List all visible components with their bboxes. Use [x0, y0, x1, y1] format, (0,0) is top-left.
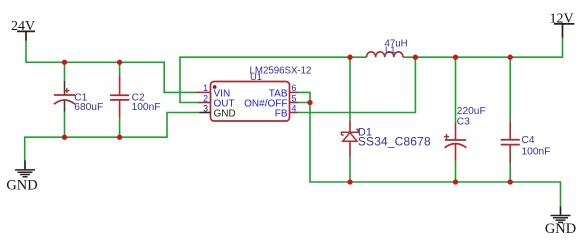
- junction C2 top: [117, 60, 122, 65]
- junction C1 bottom: [62, 135, 67, 140]
- svg-text:100nF: 100nF: [132, 102, 161, 113]
- C3 polarity plus: [444, 134, 449, 139]
- C3 curved plate: [445, 144, 467, 148]
- pin 5 stub: [290, 102, 299, 104]
- pin 3 stub: [200, 112, 211, 114]
- C1 polarity plus: [64, 88, 69, 93]
- capacitor C4: [501, 122, 551, 164]
- wire C3 bottom lead: [455, 161, 457, 183]
- pin 6 stub: [290, 91, 299, 93]
- svg-text:GND: GND: [6, 177, 37, 193]
- wire D1 cathode drop: [349, 57, 351, 120]
- wire C1 top lead: [64, 62, 66, 81]
- wire FB net: pin 4 to riser at inductor output: [298, 57, 415, 112]
- svg-text:GND: GND: [545, 221, 576, 237]
- svg-text:SS34_C8678: SS34_C8678: [358, 135, 431, 149]
- power port 12V: [549, 11, 574, 37]
- D1 anode triangle: [343, 133, 357, 142]
- C3 leads: [455, 123, 457, 161]
- svg-text:1: 1: [203, 83, 208, 93]
- junction C4 bottom: [508, 179, 513, 184]
- svg-text:3: 3: [203, 103, 208, 113]
- svg-text:4: 4: [292, 103, 297, 113]
- C1 curved plate: [54, 100, 75, 104]
- C1 straight plate: [54, 94, 75, 96]
- pin 1 stub: [197, 91, 211, 93]
- C3 straight plate: [445, 139, 466, 141]
- left ground stub: [24, 161, 26, 170]
- left ground bars: [15, 170, 35, 177]
- svg-text:L1: L1: [385, 44, 395, 55]
- capacitor C3 (polarized): [444, 106, 486, 161]
- diode D1 (Schottky): [341, 121, 431, 158]
- junction C1 top: [62, 60, 67, 65]
- C2 leads: [119, 76, 121, 118]
- right ground bars: [551, 216, 571, 223]
- wire C4 top lead: [509, 57, 511, 121]
- wire C2 bottom lead: [119, 118, 121, 138]
- svg-text:U1: U1: [250, 71, 262, 82]
- power port 24V: [11, 19, 35, 41]
- junction D1 bottom: [347, 179, 352, 184]
- C4 leads: [509, 122, 511, 164]
- wire C1 bottom lead: [64, 111, 66, 137]
- svg-text:FB: FB: [275, 109, 288, 120]
- junction C4 top: [508, 55, 513, 60]
- svg-text:GND: GND: [214, 109, 236, 120]
- ground symbol right: [545, 207, 576, 238]
- svg-text:C3: C3: [457, 116, 470, 127]
- 24V port bar symbol: [17, 31, 35, 40]
- junction C3 bottom: [453, 179, 458, 184]
- wire ON/OFF + TAB net down to ground bus: [298, 92, 351, 182]
- pin 2 stub: [199, 102, 211, 104]
- wire bottom-left ground bus and riser to pin 3: [24, 113, 201, 162]
- junction ON/OFF-TAB: [307, 100, 312, 105]
- junction L1 out: [413, 55, 418, 60]
- ground symbol left: [6, 161, 37, 194]
- D1 schottky cathode bar: [341, 129, 358, 135]
- svg-text:2: 2: [203, 93, 208, 103]
- wire C4 bottom lead: [509, 163, 511, 182]
- capacitor C1 (polarized): [54, 81, 103, 113]
- C2 plates: [110, 95, 129, 100]
- svg-text:C4: C4: [522, 135, 535, 146]
- wire 24V net: drop from port, top-left bus, riser to pin 1: [25, 41, 197, 93]
- C1 leads: [64, 81, 66, 112]
- wire bottom-right ground bus: [350, 182, 561, 207]
- svg-text:680uF: 680uF: [74, 102, 103, 113]
- svg-text:6: 6: [292, 83, 297, 93]
- pin 4 stub: [290, 112, 299, 114]
- L1 coil: [367, 52, 403, 57]
- IC U1 LM2596SX-12 body: [211, 82, 290, 122]
- junction D1 top: [347, 55, 352, 60]
- junction C2 bottom: [117, 135, 122, 140]
- D1 leads: [349, 121, 351, 158]
- C4 plates: [501, 140, 520, 145]
- 12V port bar symbol: [554, 24, 574, 38]
- inductor L1: [367, 38, 408, 57]
- capacitor C2: [110, 76, 160, 118]
- right ground stub: [560, 207, 562, 215]
- pin-1 marker dot: [213, 85, 217, 89]
- wire D1 anode drop: [349, 157, 351, 182]
- svg-text:220uF: 220uF: [457, 106, 486, 117]
- wire C3 top lead: [455, 57, 457, 122]
- svg-text:5: 5: [292, 93, 297, 103]
- wire C2 top lead: [119, 62, 121, 75]
- wire 12V bus: inductor to top-right corner and 12V port: [403, 37, 563, 57]
- junction C3 top: [453, 55, 458, 60]
- wire OUT net: pin 2 to riser to switch-node bus: [180, 57, 367, 102]
- svg-text:100nF: 100nF: [522, 147, 551, 158]
